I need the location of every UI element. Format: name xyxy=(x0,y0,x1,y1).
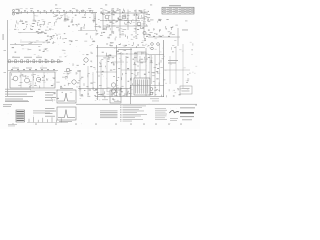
pa part pp8 xyxy=(134,70,136,71)
wire drop d1 xyxy=(33,13,35,20)
supply part ps26 xyxy=(21,74,23,76)
preamp part p67 xyxy=(118,18,121,20)
title small note 2 xyxy=(170,119,177,122)
preamp fuzz p23 xyxy=(117,17,118,20)
filter cap FC6 xyxy=(41,69,43,70)
faint value label f139 xyxy=(53,41,56,44)
pa part pp28 xyxy=(137,65,139,67)
wire vibrato bus xyxy=(148,36,180,38)
right rail part rr8 xyxy=(153,80,155,82)
tone stack part q33 xyxy=(136,37,138,40)
capacitor bias C22 xyxy=(119,94,121,95)
preamp part p20 xyxy=(123,29,126,31)
tone stack part q25 xyxy=(132,44,134,47)
preamp part p24 xyxy=(144,11,147,13)
faint value label f105 xyxy=(130,88,133,91)
tone stack part q34 xyxy=(133,42,135,45)
grid network ga3 xyxy=(19,20,21,22)
faint value label f8 xyxy=(87,9,89,12)
preamp part p52 xyxy=(109,19,111,22)
bias part bs6 xyxy=(65,77,67,79)
faint value label f46 xyxy=(123,44,126,47)
tone control gc13 xyxy=(47,23,49,25)
stage2 part sb14 xyxy=(64,18,66,19)
label oscillator xyxy=(182,29,188,32)
transformer T1 winding 5 xyxy=(143,80,145,94)
scan speckle 19 xyxy=(191,9,194,12)
channel part ch6 xyxy=(43,51,45,52)
right part rp1 xyxy=(160,60,162,63)
bias supply part bp10 xyxy=(87,95,90,97)
right sparse rt3 xyxy=(187,74,188,75)
signal spec text b3 xyxy=(45,112,53,115)
faint value label f43 xyxy=(145,13,147,16)
wire supply top xyxy=(8,70,58,72)
tone control gc4 xyxy=(47,36,49,37)
power tube V9 xyxy=(66,68,70,72)
scan speckle 57 xyxy=(93,81,96,84)
preamp fuzz p21 xyxy=(145,24,147,26)
stage1 part sa6 xyxy=(61,16,62,19)
faint value label f63 xyxy=(34,41,36,44)
schematic note number 3 xyxy=(120,108,122,111)
table cell text r2c4 xyxy=(181,9,184,12)
faint value label f99 xyxy=(119,57,121,60)
power amp part pa9 xyxy=(66,76,68,79)
faint value label f157 xyxy=(95,99,96,102)
preamp part p27 xyxy=(141,11,143,14)
capacitor C3 xyxy=(93,20,96,21)
schematic note number 4 xyxy=(120,110,122,113)
vibrato part vb8 xyxy=(171,27,173,28)
pa part pp23 xyxy=(133,62,135,64)
supply part ps5 xyxy=(53,77,55,80)
preamp part p46 xyxy=(119,15,120,18)
supply part ps6 xyxy=(12,78,14,81)
left lower part ll4 xyxy=(52,99,54,101)
faint value label f97 xyxy=(89,44,91,47)
tone stack part q21 xyxy=(101,32,103,34)
tone stack part q10 xyxy=(109,34,111,35)
preamp part p64 xyxy=(124,20,126,22)
pi box capacitor pc7 xyxy=(99,65,102,68)
faint value label f9 xyxy=(41,18,43,21)
preamp part p31 xyxy=(148,11,149,12)
preamp part p76 xyxy=(106,26,109,28)
preamp fuzz p218 xyxy=(124,22,126,24)
preamp part p73 xyxy=(148,30,150,31)
supply part ps17 xyxy=(51,85,53,86)
title small note 1 xyxy=(170,117,178,120)
ground network gn1 xyxy=(166,95,168,97)
cathode network gb2 xyxy=(32,23,35,25)
zone letter mark 5 xyxy=(95,123,97,126)
cathode network gb21 xyxy=(39,31,42,34)
tone stack part q2 xyxy=(114,38,116,41)
right part rp3 xyxy=(150,62,153,64)
fold letter D xyxy=(150,4,152,5)
supply part ps29 xyxy=(34,82,36,84)
cathode network gb11 xyxy=(38,20,40,22)
mid small parts gd3 xyxy=(60,36,62,38)
output transformer T1 frame xyxy=(134,78,150,95)
title block legal text 7 xyxy=(155,118,167,121)
pi box capacitor pc2 xyxy=(105,66,107,68)
capacitor C1 xyxy=(33,20,36,21)
wire second band bus 2 xyxy=(20,41,50,43)
output label 2 xyxy=(114,100,121,103)
capacitor C2 xyxy=(64,20,67,21)
preamp part p19 xyxy=(125,23,128,25)
tone stack part q39 xyxy=(150,32,153,34)
preamp part p69 xyxy=(136,14,138,16)
fold letter C xyxy=(105,4,107,5)
vibrato part vc6 xyxy=(158,20,161,21)
right sparse rs4 xyxy=(172,45,174,47)
screen network sn19 xyxy=(101,71,104,74)
wire pa vert 4 xyxy=(134,52,136,78)
screen network sn12 xyxy=(112,56,115,59)
faint value label f16 xyxy=(52,12,54,15)
scan speckle 30 xyxy=(39,36,42,39)
output network on10 xyxy=(129,78,131,80)
preamp fuzz p221 xyxy=(145,18,147,20)
schematic note line 6 xyxy=(123,113,148,116)
scan speckle 58 xyxy=(175,107,178,110)
voltage bar 5 xyxy=(46,119,48,122)
stage1 part sa4 xyxy=(53,15,56,17)
faint value label f128 xyxy=(155,48,157,51)
scan speckle 55 xyxy=(105,67,108,70)
driver part dr4 xyxy=(86,33,88,35)
pi box capacitor pc5 xyxy=(113,69,115,71)
preamp part p1 xyxy=(139,9,142,11)
vibrato part vb10 xyxy=(170,26,172,28)
pa part pp2 xyxy=(146,58,148,60)
right rail part rr11 xyxy=(151,72,154,74)
coupling part cp3 xyxy=(70,43,71,46)
maker label 2 xyxy=(152,100,159,103)
pi box capacitor pc3 xyxy=(108,58,110,61)
scan speckle 11 xyxy=(45,109,48,112)
wire pa vert 3 xyxy=(130,48,132,96)
faint value label f127 xyxy=(187,88,189,91)
supply part ps1 xyxy=(33,73,36,75)
chart 2 trace c22 xyxy=(117,100,119,102)
tone control gc11 xyxy=(50,36,53,37)
grid network ga7 xyxy=(21,21,23,22)
vibrato part vc1 xyxy=(160,19,162,22)
rev mark xyxy=(185,20,188,23)
tone stack part q36 xyxy=(137,33,139,36)
tone stack part q26 xyxy=(148,44,150,47)
wire under transformer xyxy=(95,96,164,98)
faint value label f61 xyxy=(19,31,21,34)
screen network sn2 xyxy=(116,91,118,94)
table cell text r3c4 xyxy=(181,11,184,14)
faint value label f133 xyxy=(13,55,15,58)
waveform chart 3 caption xyxy=(59,120,72,123)
tube chart row 4 xyxy=(17,116,24,117)
tone stack part q24 xyxy=(113,31,115,34)
faint value label f116 xyxy=(175,91,177,94)
tone stack part q18 xyxy=(122,31,124,33)
zone letter mark 11 xyxy=(180,123,182,126)
preamp fuzz p213 xyxy=(109,28,111,30)
stage3 part sc7 xyxy=(85,17,86,18)
wire bias drop 3 xyxy=(119,89,121,98)
table cell text r2c2 xyxy=(169,9,172,12)
scan speckle 20 xyxy=(156,86,159,89)
right rail part rr5 xyxy=(155,94,157,96)
corner tick xyxy=(196,104,197,107)
faint value label f137 xyxy=(44,58,46,61)
filter cap FC3 xyxy=(23,69,25,70)
faint value label f7 xyxy=(91,12,93,15)
preamp part p66 xyxy=(108,25,110,27)
driver part dr8 xyxy=(90,36,92,39)
vibrato bus bump 1 xyxy=(146,35,148,38)
schematic note number 8 xyxy=(120,116,122,119)
cathode network gb14 xyxy=(44,33,46,34)
schematic note line 8 xyxy=(123,116,136,119)
phase inverter part pi5 xyxy=(62,49,65,51)
supply divider 3 xyxy=(43,72,45,88)
wire right rail 7 xyxy=(151,55,153,84)
resistor R9 on top bus xyxy=(70,10,72,11)
faint value label f1 xyxy=(35,15,38,18)
left lower part ll1 xyxy=(50,98,52,100)
tube chart row 5 xyxy=(17,118,24,119)
pa caption row xyxy=(118,48,132,51)
preamp part p75 xyxy=(110,22,112,23)
label bass xyxy=(36,56,42,59)
faint value label f146 xyxy=(67,71,68,74)
cathode network gb12 xyxy=(43,22,45,25)
stage2 part sb3 xyxy=(66,19,68,20)
table row line 2 xyxy=(162,11,194,13)
faint value label f48 xyxy=(131,38,132,41)
voltage bar 8 xyxy=(60,118,62,122)
tone stack part q32 xyxy=(149,34,150,37)
scan speckle 4 xyxy=(128,40,129,43)
wire speaker bus xyxy=(148,54,164,56)
tone stack part q29 xyxy=(115,36,117,38)
vibrato part vb16 xyxy=(153,28,155,30)
triode V2 xyxy=(122,15,126,19)
faint value label f100 xyxy=(104,57,106,60)
stage3 part sc11 xyxy=(90,10,94,12)
schematic note line 9 xyxy=(123,118,144,121)
power tube V7 xyxy=(72,80,76,84)
table cell text r2c3 xyxy=(175,9,178,12)
tone stack part q22 xyxy=(137,45,139,46)
pa part pp30 xyxy=(133,58,135,61)
bias supply part bp2 xyxy=(79,85,81,88)
tone control gc18 xyxy=(51,37,53,39)
preamp fuzz p217 xyxy=(116,9,119,12)
cathode network gb9 xyxy=(32,25,34,28)
faint value label f156 xyxy=(96,97,98,100)
stage3 part sc2 xyxy=(80,28,82,31)
scan speckle 66 xyxy=(75,66,78,69)
screen box part sb24 xyxy=(139,59,140,62)
wire notes top border xyxy=(76,103,197,105)
potentiometer P3 xyxy=(21,60,23,63)
output jack J7 xyxy=(150,92,153,95)
faint value label f148 xyxy=(32,87,34,90)
tone control gc9 xyxy=(52,41,54,43)
vibrato part vb6 xyxy=(159,30,161,32)
power amp part pa14 xyxy=(80,78,82,80)
pa part pp1 xyxy=(134,52,137,54)
preamp part p7 xyxy=(117,21,118,22)
wire tick node n8 xyxy=(65,11,67,14)
faint value label f59 xyxy=(38,24,40,27)
tone stack part q35 xyxy=(106,43,108,46)
tone stack part q6 xyxy=(111,31,113,34)
transformer T1 winding 4 xyxy=(141,80,143,94)
faint value label f115 xyxy=(163,55,165,58)
cathode network gb1 xyxy=(33,22,35,25)
preamp part p72 xyxy=(121,11,123,13)
faint value label f85 xyxy=(137,71,139,74)
cathode network gb5 xyxy=(39,23,41,26)
tone control gc1 xyxy=(50,39,51,40)
faint value label f76 xyxy=(93,81,96,84)
faint value label f5 xyxy=(72,16,74,19)
faint value label f34 xyxy=(125,13,127,16)
faint value label f31 xyxy=(111,9,113,12)
schematic note line 2 xyxy=(123,106,143,109)
table col line 4 xyxy=(184,7,186,14)
vibrato part vb11 xyxy=(170,28,172,30)
tone control gc2 xyxy=(46,40,48,41)
faint value label f122 xyxy=(149,47,151,50)
extension jack J5 xyxy=(157,43,160,46)
supply part ps7 xyxy=(22,75,25,77)
stage3 part sc3 xyxy=(94,17,95,20)
vibrato part vb1 xyxy=(172,34,175,36)
supply part ps14 xyxy=(27,76,29,79)
signal spec text b1 xyxy=(45,107,55,110)
tone control gc17 xyxy=(53,22,55,25)
vibrato part vb17 xyxy=(159,35,161,38)
faint value label f160 xyxy=(107,90,110,93)
power amp part pa3 xyxy=(70,69,72,72)
preamp part p53 xyxy=(119,8,121,11)
stage1 part sa10 xyxy=(55,21,57,23)
stage1 part sa8 xyxy=(56,19,57,22)
table cell text r2c6 xyxy=(191,9,194,12)
preamp part p32 xyxy=(113,11,116,12)
tube complement row 2 xyxy=(5,90,35,93)
wire pa vert 6 xyxy=(145,48,147,96)
power tube V11 xyxy=(111,89,115,93)
preamp part p43 xyxy=(140,17,143,19)
preamp part p47 xyxy=(136,14,137,15)
right part rp9 xyxy=(157,68,159,69)
zone letter mark 2 xyxy=(35,123,37,126)
scan speckle 6 xyxy=(169,108,172,111)
output network on8 xyxy=(127,91,129,93)
wire tick node n9 xyxy=(72,11,74,14)
wire preamp vert v3 xyxy=(119,10,121,39)
bias part bs7 xyxy=(62,76,65,78)
wire right rail 3 xyxy=(175,46,177,84)
rectifier tube V13 xyxy=(36,77,40,81)
power amp part pa1 xyxy=(81,76,83,79)
screen network sn24 xyxy=(111,62,113,64)
signal spec text b4 xyxy=(45,115,55,118)
transformer T1 winding 6 xyxy=(145,80,147,94)
value label top t2 xyxy=(55,7,58,10)
right part rp7 xyxy=(150,60,152,63)
table cell text r3c1 xyxy=(163,11,166,14)
right part rp8 xyxy=(160,67,162,69)
label impedance 1 xyxy=(168,59,178,62)
output network on4 xyxy=(113,93,114,96)
bottom-left text row 1 xyxy=(5,100,28,103)
preamp part p35 xyxy=(103,29,106,31)
screen network sn16 xyxy=(110,55,111,56)
wire control strip bus xyxy=(8,61,64,63)
preamp fuzz p28 xyxy=(135,19,137,22)
scan speckle 13 xyxy=(169,122,172,125)
faint value label f32 xyxy=(131,38,133,41)
faint value label f4 xyxy=(31,11,32,14)
title block legal text 5 xyxy=(155,115,167,118)
preamp part p30 xyxy=(124,10,126,13)
wire right rail 1 xyxy=(163,40,165,97)
resistor R2 on top bus xyxy=(24,10,26,11)
tone stack part q37 xyxy=(144,40,146,41)
phase inverter part pi7 xyxy=(90,60,92,63)
wire pa left vert 1 xyxy=(79,70,81,96)
preamp part p33 xyxy=(111,12,113,14)
output network on12 xyxy=(129,93,131,95)
output network on14 xyxy=(120,88,122,89)
grid network ga10 xyxy=(20,20,22,22)
pa part pp11 xyxy=(145,53,148,55)
revision table frame xyxy=(162,7,194,14)
tone control gc5 xyxy=(47,26,49,28)
output network on11 xyxy=(123,94,125,96)
driver part dr3 xyxy=(93,40,95,43)
pa part pp27 xyxy=(127,57,129,58)
potentiometer P4 xyxy=(27,60,29,63)
preamp part p29 xyxy=(127,17,129,20)
schematic note line 3 xyxy=(123,108,140,111)
resistor R4 on top bus xyxy=(37,10,39,11)
scan speckle 68 xyxy=(8,29,11,32)
scan speckle 9 xyxy=(36,86,39,89)
scan speckle 36 xyxy=(67,55,68,58)
voltage bar 7 xyxy=(56,120,58,123)
preamp part p3 xyxy=(138,16,140,19)
faint value label f131 xyxy=(46,50,48,53)
title block legal text 1 xyxy=(155,107,166,110)
scan speckle 18 xyxy=(180,90,183,93)
faint value label f94 xyxy=(64,52,66,55)
bias part bs1 xyxy=(56,81,59,83)
preamp fuzz p222 xyxy=(118,29,120,32)
faint value label f152 xyxy=(97,86,99,89)
vibrato part vb2 xyxy=(166,28,167,29)
power amp part pa5 xyxy=(90,83,92,84)
potentiometer P8 xyxy=(51,60,53,63)
power amp part pa13 xyxy=(67,73,69,75)
